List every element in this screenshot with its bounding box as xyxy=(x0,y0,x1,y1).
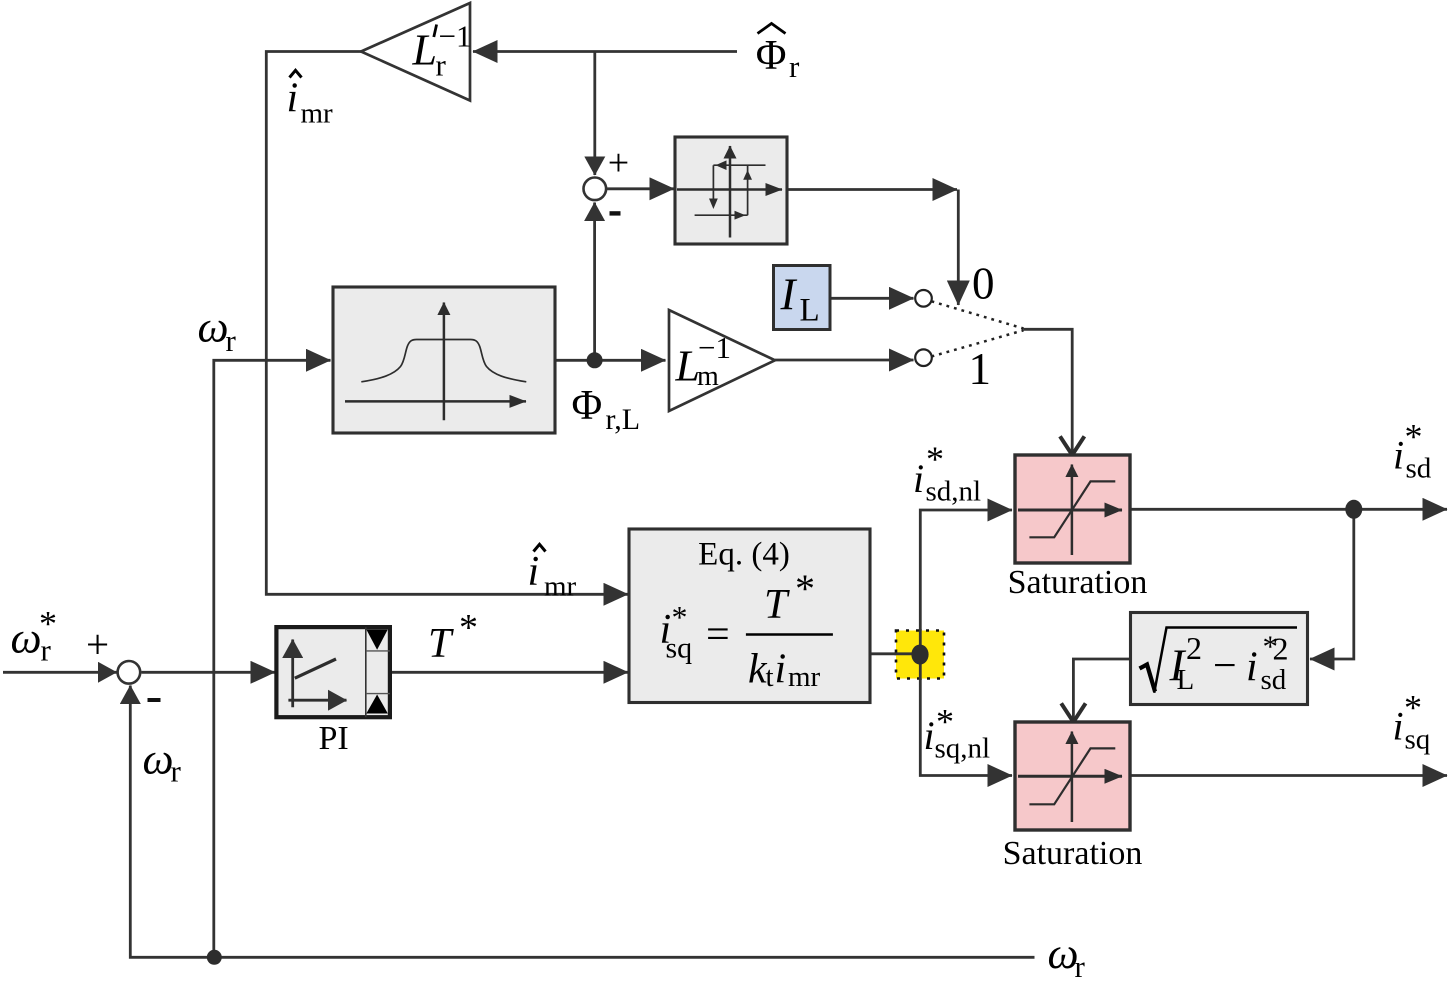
svg-text:sd,nl: sd,nl xyxy=(926,476,982,508)
svg-text:ω: ω xyxy=(198,303,229,352)
svg-text:i: i xyxy=(1246,645,1258,691)
svg-text:1: 1 xyxy=(969,344,992,394)
svg-text:i: i xyxy=(913,456,924,501)
svg-text:mr: mr xyxy=(788,661,821,693)
svg-text:ω: ω xyxy=(143,735,174,784)
svg-text:r: r xyxy=(41,633,52,668)
svg-text:Eq. (4): Eq. (4) xyxy=(698,537,790,573)
svg-text:L: L xyxy=(800,293,820,329)
svg-text:Saturation: Saturation xyxy=(1003,835,1143,872)
svg-text:PI: PI xyxy=(319,720,349,757)
svg-text:i: i xyxy=(528,549,540,595)
svg-text:=: = xyxy=(706,612,730,658)
svg-text:*: * xyxy=(926,439,944,479)
svg-text:2: 2 xyxy=(1273,631,1289,667)
svg-text:*: * xyxy=(1404,688,1422,728)
svg-text:*: * xyxy=(795,566,815,611)
svg-text:ω: ω xyxy=(11,614,42,663)
svg-text:*: * xyxy=(459,607,478,649)
svg-text:−: − xyxy=(1213,643,1237,689)
svg-text:sd: sd xyxy=(1261,664,1287,696)
svg-text:2: 2 xyxy=(1186,630,1202,666)
svg-text:*: * xyxy=(1405,417,1423,457)
svg-text:sq: sq xyxy=(1405,724,1431,756)
svg-text:r: r xyxy=(789,49,800,84)
svg-text:T: T xyxy=(764,582,790,628)
svg-text:0: 0 xyxy=(972,259,995,309)
svg-text:i: i xyxy=(775,647,787,693)
svg-text:sq,nl: sq,nl xyxy=(935,733,991,765)
svg-text:i: i xyxy=(287,76,299,122)
svg-text:mr: mr xyxy=(544,571,577,603)
svg-text:i: i xyxy=(1393,433,1404,478)
svg-text:sq: sq xyxy=(666,632,693,665)
svg-text:Φ: Φ xyxy=(572,383,603,429)
svg-text:t: t xyxy=(766,661,774,693)
svg-text:r: r xyxy=(436,48,447,83)
svg-text:+: + xyxy=(86,621,109,667)
svg-text:Φ: Φ xyxy=(756,33,787,79)
svg-text:r,L: r,L xyxy=(606,403,641,436)
svg-text:m: m xyxy=(697,361,719,392)
svg-text:*: * xyxy=(672,599,688,635)
svg-text:sd: sd xyxy=(1406,453,1432,485)
svg-text:+: + xyxy=(608,142,629,184)
svg-text:Saturation: Saturation xyxy=(1008,564,1148,601)
svg-text:I: I xyxy=(780,270,798,320)
svg-text:i: i xyxy=(924,713,935,758)
svg-text:mr: mr xyxy=(301,98,334,130)
svg-text:r: r xyxy=(226,323,237,358)
svg-text:r: r xyxy=(171,754,182,789)
svg-text:r: r xyxy=(1075,949,1086,984)
svg-text:−1: −1 xyxy=(698,330,731,365)
svg-text:L: L xyxy=(1177,664,1195,696)
svg-text:i: i xyxy=(1393,704,1404,749)
svg-text:T: T xyxy=(428,621,454,667)
svg-text:L: L xyxy=(412,26,437,75)
